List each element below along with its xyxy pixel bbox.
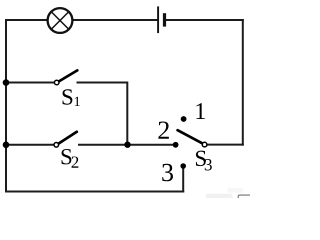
- label S1 'S': [63, 89, 73, 104]
- wire right vertical: [242, 19, 244, 146]
- label S2 subscript 2: [72, 156, 79, 167]
- artifact grey box corner bottom right: [238, 195, 250, 198]
- wire contact 3 riser: [182, 166, 184, 193]
- wire S1 drop: [126, 82, 128, 145]
- label S3 'S': [196, 151, 206, 166]
- artifact faint block bottom right: [228, 188, 244, 193]
- label contact 2: [158, 121, 168, 138]
- artifact light button bottom right: [206, 194, 233, 200]
- junction left S2: [3, 142, 10, 149]
- switch S3 selector: [178, 130, 207, 147]
- wire S1 row right: [77, 82, 128, 84]
- label S2 'S': [62, 149, 72, 164]
- junction S1-S2 merge: [124, 142, 130, 148]
- node contact 3: [180, 163, 186, 169]
- wire top (left segment to battery): [5, 19, 158, 21]
- wire S2 row left: [6, 144, 54, 146]
- node contact 1: [181, 116, 187, 122]
- switch S1: [54, 70, 77, 84]
- wire bottom: [5, 191, 184, 193]
- wire S2 row right to contact 2: [78, 144, 176, 146]
- wire S1 row left: [6, 82, 54, 84]
- node contact 2: [173, 142, 179, 148]
- label S3 subscript 3: [205, 159, 212, 170]
- wire left vertical: [5, 19, 7, 193]
- lamp: [48, 8, 73, 33]
- junction left S1: [3, 79, 10, 86]
- wire S3 feed (right wire to pivot): [207, 144, 243, 146]
- battery: [158, 6, 166, 33]
- label S1 subscript 1: [75, 97, 80, 106]
- label contact 1: [196, 103, 204, 119]
- switch S2: [54, 132, 77, 147]
- label contact 3: [162, 164, 173, 181]
- wire top (battery to right corner): [165, 19, 244, 21]
